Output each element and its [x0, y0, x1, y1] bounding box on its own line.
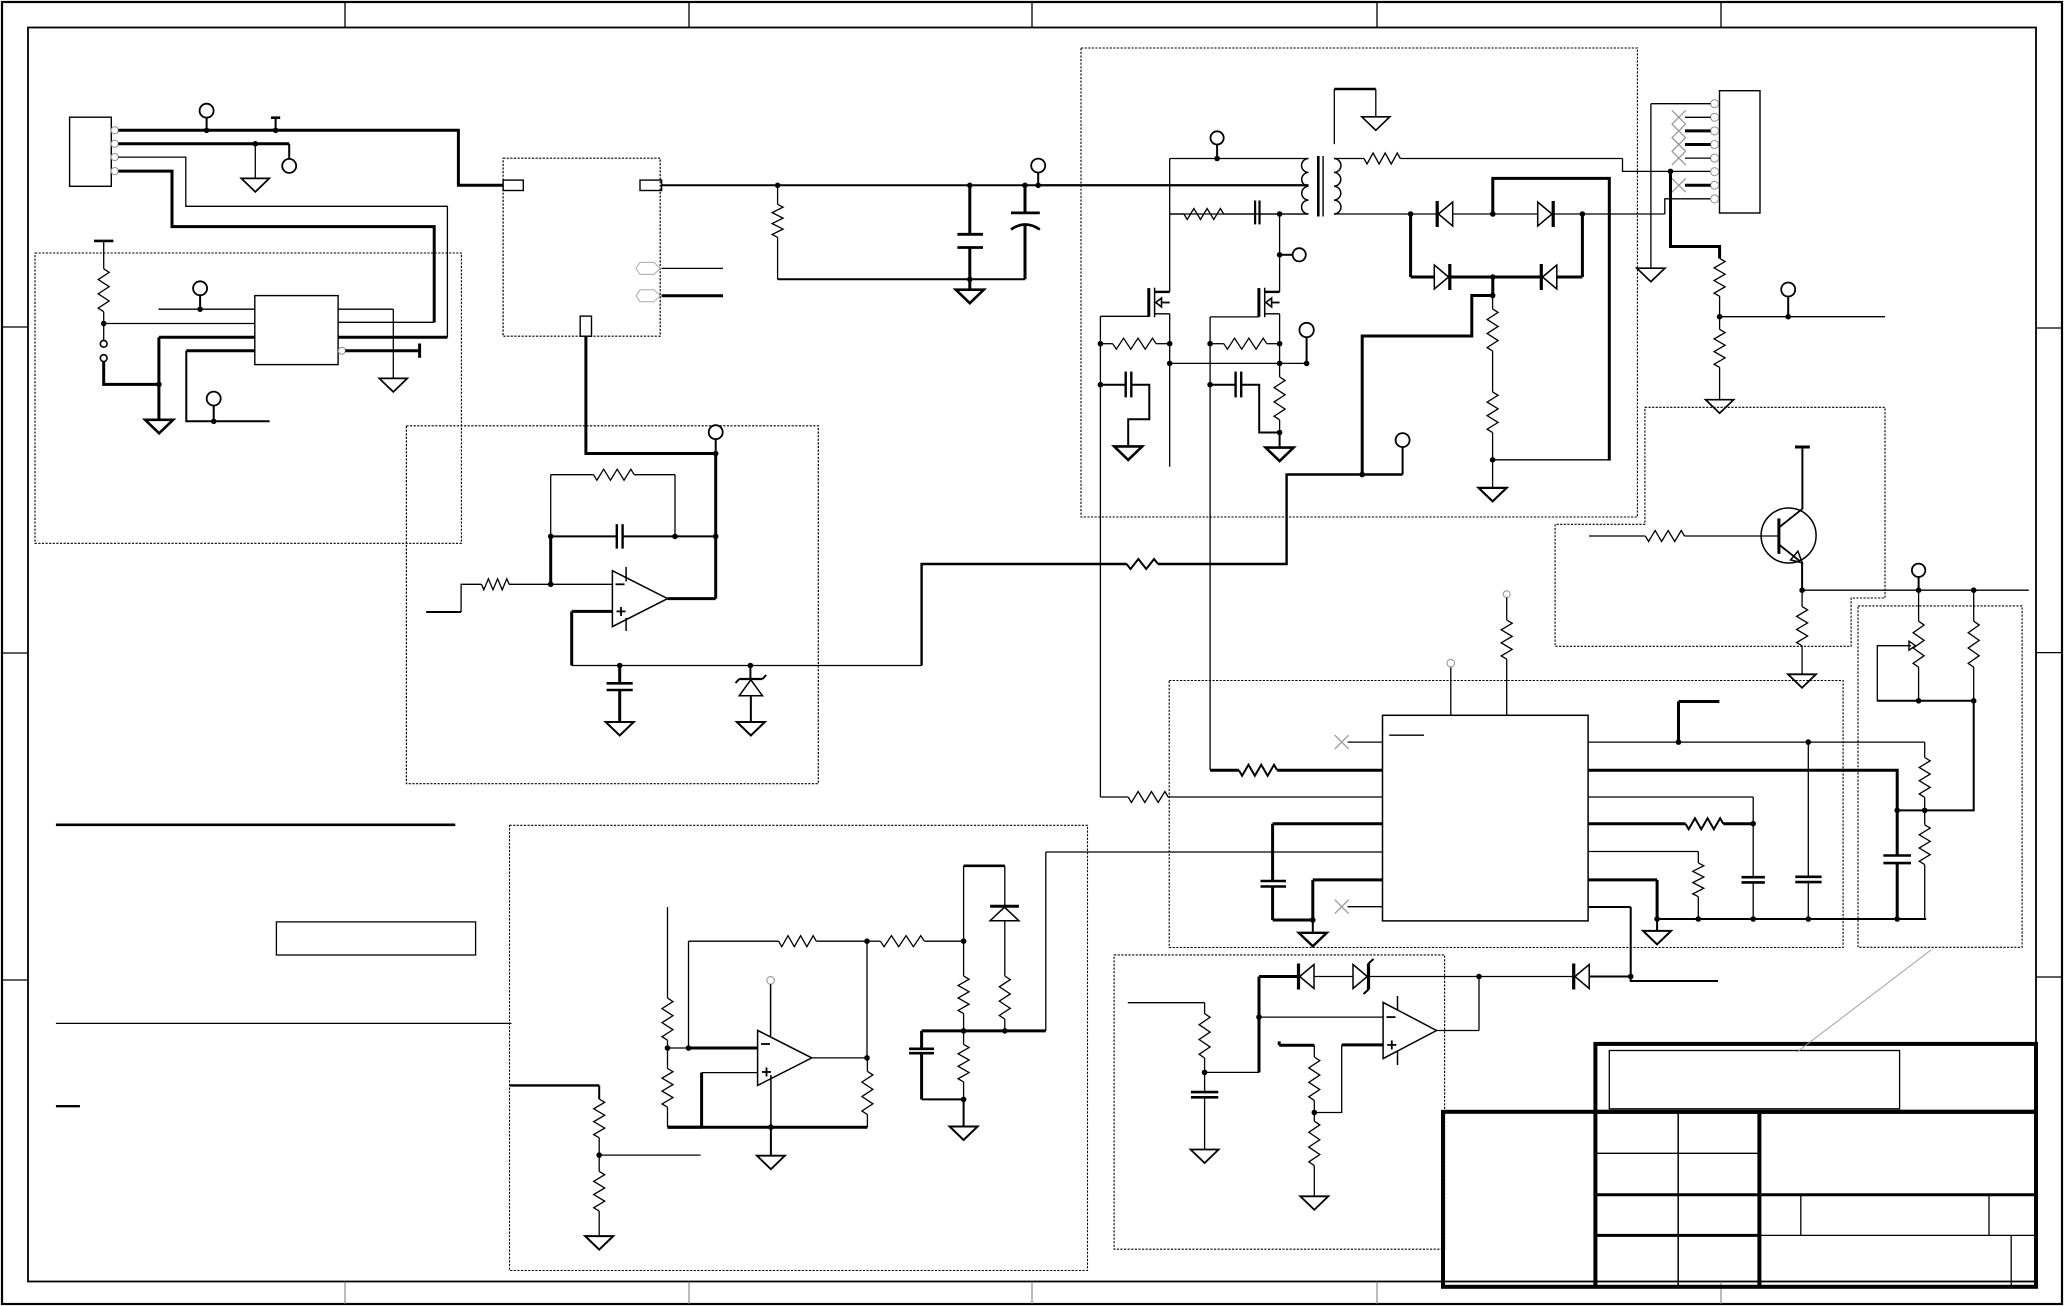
wire U4 bottom rail: [668, 1126, 868, 1129]
wire D6 to D7: [1369, 974, 1574, 980]
test point TP3 on relay pin A: [193, 281, 207, 312]
wire to J2 pin8: [1665, 199, 1715, 214]
wire reference to divider node right: [1158, 472, 1403, 564]
wire D3 to D4: [1450, 274, 1542, 280]
dashed block box comparator: [1114, 955, 1445, 1249]
wire R2 to switch: [101, 312, 107, 341]
potentiometer RV1 wiper: [1877, 641, 1918, 701]
ground at R28: [1300, 1196, 1328, 1210]
wire U2 right pin 6: [1588, 880, 1657, 919]
supply tap at Q3 collector: [1795, 447, 1810, 509]
resistor R15 aux lower: [1714, 317, 1725, 400]
relay pin circle: [338, 347, 345, 354]
left border zone ticks: [2, 327, 28, 980]
bottom border zone ticks: [345, 1282, 1721, 1305]
zener diode D8 reference: [736, 666, 767, 722]
transformer T1 primary winding: [1170, 159, 1309, 215]
potentiometer RV1: [1913, 590, 1924, 703]
wire J2 pin6 aux rail: [1671, 171, 1720, 258]
no-connect J2 pin7: [1672, 178, 1711, 192]
resistor R18 divider: [1968, 590, 1979, 703]
mosfet Q2: [1259, 288, 1280, 318]
resistor R17 emitter load: [1797, 590, 1808, 674]
module PS1 left pin stub: [503, 180, 523, 190]
test point TP1 on J1 pin1 wire: [200, 104, 214, 133]
title block lower frame: [1443, 1112, 2036, 1287]
resistor R25: [1693, 863, 1704, 919]
diode D2: [1538, 201, 1554, 227]
title block right row line A: [1759, 1193, 2036, 1196]
resistor R26: [1199, 1014, 1210, 1073]
ground at switch node: [145, 384, 173, 433]
resistor R6 in reference wire: [1127, 559, 1158, 569]
no-connect J2 pin2: [1672, 110, 1711, 124]
resistor R3 bleeder: [772, 185, 783, 279]
test point TP11 on aux node: [1781, 283, 1795, 320]
wire minus node to RC: [1202, 1017, 1259, 1075]
ground at C12: [1191, 1150, 1219, 1164]
module PS1 bottom pin stub: [580, 316, 591, 336]
title block row line 3: [1595, 1234, 1759, 1237]
capacitor C9 on FB rail: [1795, 742, 1821, 919]
transformer T1 secondary winding: [1334, 159, 1341, 215]
diode D7: [1574, 964, 1590, 990]
wire relay coil pin down: [186, 351, 269, 422]
wire divider node to rectifier tap: [1362, 296, 1492, 475]
resistor R14 aux upper: [1714, 258, 1725, 319]
test point TP7 on divider node: [1396, 433, 1410, 474]
resistor R19 feedback upper: [1919, 742, 1930, 810]
resistor R20 feedback lower: [1919, 810, 1930, 919]
connector J2 pin circles: [1711, 100, 1719, 203]
ground at divider: [1479, 460, 1507, 502]
ground at clamp: [950, 1099, 978, 1140]
dashed block box controller: [1169, 681, 1843, 948]
wire diode chain to minus input: [1256, 977, 1298, 1020]
diode D6: [1353, 959, 1374, 994]
resistor R22 gate drive B: [1239, 765, 1383, 776]
resistor R16 base: [1645, 531, 1779, 542]
no-connect U2 left pin 1: [1335, 735, 1383, 749]
wire clamp node: [922, 1029, 1046, 1032]
ground at J2 pin1: [1637, 268, 1665, 282]
dashed block box output amplifier: [510, 825, 1088, 1270]
ground at C5: [1114, 446, 1142, 460]
wire controller FB pin rail: [1588, 739, 1925, 745]
resistor R24 on U2 pin 4: [1588, 818, 1756, 829]
title block vertical divider 2: [1757, 1112, 1761, 1287]
resistor R27 threshold upper: [1279, 1041, 1320, 1112]
wire rectifier bottom branch right: [1557, 214, 1583, 277]
wire module hexagon pin 1 stub: [662, 267, 723, 269]
ground flag at transformer: [1334, 89, 1390, 144]
resistor R34 feedback B: [867, 936, 966, 947]
wire U2 ground pin: [1313, 880, 1383, 920]
resistor R5 input: [426, 579, 551, 612]
no-connect U2 left pin 7: [1335, 900, 1383, 914]
wire relay K1 thick left pin: [159, 337, 255, 384]
resistor R9 Q2 source: [1274, 377, 1285, 435]
transistor Q3: [1761, 508, 1816, 563]
U2 top pin 2 resistor R21: [1501, 591, 1512, 716]
connector J2 body: [1720, 91, 1761, 213]
wire J1 pin4: [118, 171, 434, 322]
wire J1 pin3 to relay K1 right pin: [338, 336, 447, 339]
wire controller comp pin to divider: [1588, 770, 1897, 810]
wire U2 gate drive A: [1100, 796, 1128, 798]
wire Q2 source: [1277, 314, 1283, 377]
test point TP8 on source link: [1299, 323, 1313, 364]
test point TP4 below relay: [207, 392, 221, 425]
wire emitter rail: [1802, 587, 2029, 593]
tap symbol on J1 pin1 wire: [271, 118, 280, 133]
right border zone ticks: [2036, 328, 2062, 977]
wire module PS1 output bus: [662, 183, 1309, 189]
wire secondary bottom: [1334, 211, 1437, 217]
no-connect J2 pin5: [1672, 151, 1711, 165]
wire comparator input stub: [1128, 1003, 1205, 1014]
wire DC bus return: [778, 277, 1025, 283]
wire U3 plus input: [1312, 1045, 1384, 1115]
wire D7 to U2 pin7 node: [1589, 976, 1631, 978]
dashed block box startup: [1555, 407, 1885, 646]
wire U4 output: [812, 941, 870, 1060]
wire module hexagon pin 2 stub: [662, 294, 723, 297]
diode D4: [1541, 264, 1557, 290]
diode D1: [1437, 201, 1453, 227]
wire U2 right pin 5: [1588, 852, 1698, 863]
ground at C4: [606, 722, 634, 736]
note rule lower: [56, 1022, 512, 1024]
test point TP9 at Q2 drain: [1280, 248, 1306, 261]
top border zone ticks: [345, 2, 1721, 28]
wire J2 pin1 to ground: [1651, 104, 1711, 268]
wire module bottom pin to op-amp U1 output node: [586, 336, 719, 456]
wire U1 output node riser: [713, 454, 719, 599]
wire transformer primary left leg: [1169, 159, 1171, 215]
wire Q2 gate rail: [1207, 317, 1213, 770]
wire U1 reference node: [572, 663, 922, 669]
relay K1 body: [255, 296, 338, 365]
resistor R31: [662, 998, 673, 1051]
title block vertical divider 1: [1593, 1112, 1597, 1287]
op-amp U4: [758, 1030, 812, 1085]
no-connect J2 pin4: [1672, 138, 1711, 152]
dashed block box input filter: [35, 253, 461, 543]
capacitor C3 feedback: [617, 524, 623, 548]
resistor R8 Q2 gate-source: [1210, 338, 1280, 349]
wire relay K1 coil left pin: [186, 349, 255, 352]
capacitor C7 primary snubber: [1255, 201, 1308, 225]
wire node to relay K1 pin: [104, 323, 255, 325]
wire divider node: [1493, 459, 1610, 461]
wire D1 to D2: [1453, 211, 1539, 217]
title block upper frame: [1595, 1044, 2036, 1112]
ground at Q2 source: [1266, 433, 1294, 462]
title block right cell divider 1: [1800, 1195, 1802, 1236]
title block row line 1: [1595, 1152, 1759, 1154]
wire J1 pin3: [118, 157, 447, 337]
connector J1 pin circles: [111, 127, 118, 175]
wire Q1 source: [1167, 314, 1173, 467]
resistor R36: [999, 976, 1010, 1034]
no-connect J2 pin3: [1672, 124, 1711, 138]
capacitor C10 timing: [1261, 881, 1316, 923]
wire input to output amp: [510, 1085, 599, 1099]
ground at aux divider: [1706, 400, 1734, 414]
title block row line 2: [1595, 1193, 1759, 1196]
wire divider tap stub: [599, 1154, 700, 1156]
wire divider mid node: [1877, 700, 1973, 702]
wire rectifier mid tap down: [1490, 277, 1496, 298]
note rule fragment: [56, 1105, 80, 1107]
stub at FB rail: [1679, 702, 1720, 743]
wire relay to supply tap: [345, 349, 419, 352]
diode D5: [1299, 964, 1315, 990]
leader line: [1797, 950, 1931, 1052]
ground at J1 pin2: [241, 144, 269, 192]
wire U1 inverting input: [548, 536, 613, 587]
resistor R28 threshold lower: [1309, 1113, 1320, 1196]
wire switch to ground node: [104, 362, 162, 388]
title block vertical divider 3: [1677, 1112, 1679, 1287]
wire stub right of diode node: [1631, 977, 1718, 982]
resistor R30: [594, 1155, 605, 1235]
module PS1 body: [503, 158, 660, 336]
clamp bracket: [964, 866, 1005, 941]
ground at U2: [1299, 920, 1327, 946]
wire aux node: [1720, 316, 1885, 318]
test point TP6 at U1 output node: [709, 425, 723, 453]
supply tap bar: [418, 344, 421, 358]
wire U4 plus input: [702, 1073, 758, 1128]
op-amp U1: [612, 567, 667, 631]
controller U2 body: [1383, 715, 1589, 921]
wire J1 pin1 to module PS1: [118, 130, 503, 185]
wire relay K1 left pin A: [158, 308, 254, 310]
wire U2 timing pin: [1273, 824, 1383, 881]
wire U2 gate drive B: [1210, 769, 1239, 772]
resistor R38: [958, 1031, 969, 1102]
resistor R29: [594, 1099, 605, 1158]
wire Q3 emitter: [1799, 562, 1805, 593]
wire U2 right pin 7: [1588, 907, 1633, 979]
wire Q1 drain: [1169, 214, 1171, 292]
dashed block box feedback divider: [1858, 606, 2022, 947]
resistor R11 secondary: [1334, 153, 1623, 164]
resistor R13 divider lower: [1487, 351, 1498, 463]
ground at U4 supply: [757, 1127, 785, 1169]
wire reference to divider node: [922, 564, 1127, 666]
wire rectifier mid tap up: [1493, 178, 1610, 460]
test point TP5 on DC bus: [1031, 159, 1045, 186]
resistor R23 gate drive A: [1128, 792, 1382, 803]
wire J1 pin2: [118, 141, 289, 147]
wire Q2 drain: [1277, 214, 1283, 292]
diode D3: [1434, 264, 1450, 290]
capacitor C13: [909, 1031, 964, 1100]
op-amp U3 comparator: [1383, 996, 1436, 1065]
resistor R35 output: [862, 1058, 873, 1127]
wire primary center tap: [1038, 184, 1308, 186]
wire rectifier bottom branch left: [1411, 276, 1435, 279]
wire rectifier left riser: [1409, 214, 1412, 277]
wire D2 to pin8 riser: [1553, 211, 1665, 217]
ground at D8: [737, 722, 765, 736]
test point TP2 on J1 pin2 wire: [282, 144, 296, 173]
resistor R12 divider upper: [1487, 296, 1498, 352]
U4 power pin top: [767, 977, 775, 1036]
ground at R30: [585, 1236, 613, 1250]
capacitor C11: [1742, 824, 1765, 919]
resistor R33 feedback A: [779, 936, 870, 947]
title block inner box: [1609, 1051, 1899, 1109]
wire divider to feedback node: [1894, 701, 1973, 813]
ground at relay right pin: [379, 378, 407, 392]
U4 power pin bottom: [768, 1075, 774, 1130]
capacitor C2 polarized: [1011, 185, 1040, 279]
title block right cell divider 2: [1988, 1195, 1990, 1236]
module PS1 right pin stub: [640, 180, 662, 190]
capacitor C6 Q2 gate: [1210, 372, 1280, 433]
wire Q1 gate rail: [1098, 316, 1104, 797]
wire secondary top to J2 pin6: [1623, 159, 1715, 175]
ground at DC bus return: [956, 279, 984, 303]
capacitor C12: [1191, 1072, 1218, 1148]
resistor R37: [958, 941, 969, 1033]
resistor R7 Q1 gate-source: [1100, 338, 1169, 349]
wire U1 output: [668, 597, 716, 600]
wire comparator minus input: [1259, 1016, 1383, 1018]
connector J1 body: [70, 117, 112, 186]
capacitor C8 feedback: [1883, 810, 1911, 919]
wire U3 output: [1437, 977, 1480, 1031]
title block right row line B: [1759, 1234, 2036, 1236]
wire U4 feedback: [689, 941, 779, 1048]
switch S1 contacts: [100, 340, 107, 361]
capacitor C5 Q1 gate: [1100, 372, 1149, 446]
test point TP12 on emitter rail: [1912, 564, 1925, 591]
wire U1 non-inverting input: [572, 611, 613, 665]
note box: [276, 922, 475, 955]
wire Q1 Q2 source link: [1170, 361, 1310, 367]
wire relay K1 right pin to J1 pin4 riser: [338, 321, 434, 323]
dashed block box converter: [1081, 48, 1637, 517]
wire D5 to D6: [1314, 976, 1353, 978]
zener diode D9: [990, 906, 1019, 976]
wire Q1 gate lead: [1100, 315, 1148, 317]
wire secondary ground rail: [1654, 916, 1926, 922]
wire minus input stub: [667, 907, 669, 998]
capacitor C4 reference: [607, 666, 633, 722]
wire U2 right pin 3: [1588, 797, 1753, 824]
mosfet Q1: [1149, 288, 1170, 318]
block box error amplifier: [406, 426, 818, 784]
test point TP10 at primary: [1211, 131, 1224, 161]
title block right cell divider 3: [2010, 1235, 2012, 1286]
tap symbol above resistor R2: [94, 241, 113, 269]
module PS1 hexagon pin 2: [636, 290, 660, 302]
resistor R4 feedback: [551, 469, 675, 536]
wire Q2 gate lead: [1210, 316, 1259, 318]
resistor R32: [662, 1048, 702, 1127]
resistor R2: [98, 269, 109, 312]
resistor R10 primary snubber: [1170, 209, 1255, 220]
wire relay K1 right pin to ground: [338, 309, 393, 378]
module PS1 hexagon pin 1: [636, 262, 660, 274]
wire U1 feedback node: [548, 534, 716, 540]
wire Q3 base: [1589, 535, 1645, 537]
capacitor C1 bulk: [957, 185, 983, 279]
ground at R17: [1788, 674, 1816, 688]
transformer T1 core: [1318, 156, 1323, 217]
wire U4 minus input: [668, 1045, 758, 1051]
U2 internal pin overline: [1389, 734, 1424, 736]
U2 top pin 1: [1447, 659, 1455, 715]
wire U2 sense pin: [1046, 852, 1383, 1031]
note rule upper: [56, 823, 455, 826]
ground at secondary rail: [1643, 919, 1671, 944]
